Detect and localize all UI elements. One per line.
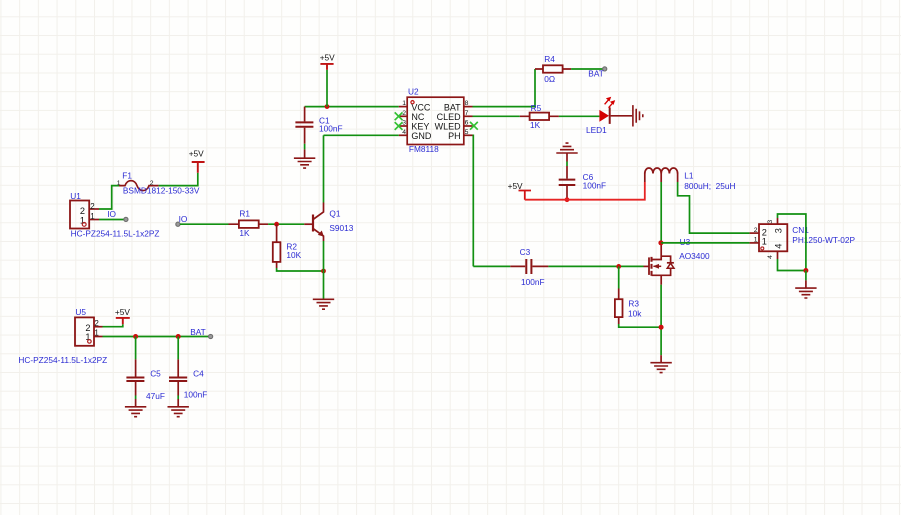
- wire R1 to Q1 base: [268, 223, 304, 225]
- svg-text:1: 1: [94, 328, 99, 337]
- wire IO to R1: [180, 223, 229, 225]
- svg-text:5: 5: [465, 129, 469, 136]
- svg-text:BAT: BAT: [444, 102, 461, 112]
- svg-text:L1: L1: [684, 171, 694, 181]
- svg-text:LED1: LED1: [586, 125, 607, 135]
- svg-text:100nF: 100nF: [521, 277, 545, 287]
- green pin end above C6: [566, 162, 568, 167]
- svg-text:3: 3: [767, 220, 774, 224]
- svg-text:GND: GND: [411, 131, 432, 141]
- svg-text:Q1: Q1: [329, 209, 340, 219]
- svg-text:1K: 1K: [530, 120, 541, 130]
- svg-text:R1: R1: [239, 209, 250, 219]
- stub ground to C6: [566, 153, 568, 162]
- resistor R1 1K: [229, 209, 269, 238]
- wire R5 to LED1: [559, 115, 600, 117]
- junction C5: [133, 334, 138, 339]
- wire F1 to +5V: [159, 173, 198, 186]
- svg-text:F1: F1: [122, 171, 132, 181]
- svg-text:0Ω: 0Ω: [544, 74, 555, 84]
- wire VCC row C1 to U2 pin1: [305, 106, 399, 108]
- wire L1 tap to U3 drain: [660, 182, 662, 243]
- ground (Q1 emitter): [313, 299, 334, 309]
- svg-text:U5: U5: [75, 307, 86, 317]
- svg-text:1K: 1K: [239, 228, 250, 238]
- svg-text:4: 4: [774, 244, 784, 249]
- svg-text:BSMD1812-150-33V: BSMD1812-150-33V: [123, 186, 200, 196]
- wire U2 PH down to C3 row: [472, 135, 475, 266]
- U5 pin 2 stub: [94, 326, 103, 328]
- green pin end C4: [177, 396, 179, 400]
- wire U2 CLED to R5: [473, 115, 520, 117]
- net port IO at U1 pin1: [99, 209, 128, 222]
- U1 pin 1 stub: [89, 219, 99, 221]
- net port BAT (R4): [588, 67, 607, 79]
- CN1 pin 2 stub: [750, 232, 759, 234]
- wire C3 to gate node: [548, 265, 643, 267]
- ground (U3 source): [650, 355, 671, 372]
- junction C4: [176, 334, 181, 339]
- junction R1/R2: [274, 222, 279, 227]
- svg-text:CLED: CLED: [437, 112, 462, 122]
- LED LED1: [586, 97, 632, 135]
- ground (C5): [125, 399, 146, 417]
- svg-text:2: 2: [94, 319, 99, 328]
- wire stub C1 to ground (green pin end): [304, 144, 306, 150]
- wire U5 pin1 BAT row: [103, 336, 210, 338]
- junction emitter node: [321, 269, 326, 274]
- svg-text:+5V: +5V: [189, 148, 204, 158]
- svg-text:U2: U2: [408, 87, 419, 97]
- wire U2 GND to Q1 collector: [324, 134, 399, 136]
- power net label +5V (rail): [508, 181, 531, 200]
- wire C3 row left segment: [473, 265, 510, 267]
- wire CN1 node to ground: [805, 271, 807, 281]
- connector U5 HC-PZ254-11.5L-1x2PZ: [18, 307, 107, 365]
- ground (C4): [168, 399, 189, 417]
- svg-text:3: 3: [402, 120, 406, 127]
- CN1 pin 3 stub (top): [777, 218, 779, 224]
- junction gate/R3: [616, 264, 621, 269]
- mosfet U3 AO3400: [644, 237, 711, 285]
- svg-text:S9013: S9013: [329, 223, 353, 233]
- junction CN1 ground node: [803, 268, 808, 273]
- svg-text:U3: U3: [680, 237, 691, 247]
- svg-text:HC-PZ254-11.5L-1x2PZ: HC-PZ254-11.5L-1x2PZ: [18, 355, 107, 365]
- U2 pin 2 NC stub: [399, 115, 407, 117]
- svg-text:1: 1: [90, 212, 95, 221]
- resistor R3 10k: [615, 266, 642, 324]
- svg-text:R3: R3: [628, 299, 639, 309]
- svg-text:+5V: +5V: [320, 52, 335, 62]
- no-connect X on U2 pin 2: [395, 112, 403, 120]
- wire BAT row down to C5: [135, 337, 137, 360]
- resistor R5 1K: [520, 103, 559, 130]
- svg-text:10K: 10K: [286, 250, 301, 260]
- wire +5V rail (red) to L1: [525, 182, 645, 200]
- CN1 pin 1 stub: [750, 242, 759, 244]
- svg-text:VCC: VCC: [411, 102, 431, 112]
- wire CN1 pin3 loop to pin4/ground: [778, 214, 806, 271]
- wire R3 bottom to source node: [619, 324, 661, 327]
- svg-text:2: 2: [90, 202, 95, 211]
- svg-text:6: 6: [465, 120, 469, 127]
- wire Q1 emitter to ground: [323, 241, 325, 299]
- svg-text:8: 8: [465, 100, 469, 107]
- svg-text:2: 2: [402, 110, 406, 117]
- junction +5V/VCC: [325, 104, 330, 109]
- ground (CN1): [795, 280, 816, 298]
- resistor R2 10K: [273, 224, 302, 268]
- svg-text:IO: IO: [179, 214, 188, 224]
- wire drain node to CN1 pin1: [661, 242, 749, 244]
- svg-text:U1: U1: [70, 191, 81, 201]
- no-connect X on U2 pin 3: [395, 122, 403, 130]
- svg-text:1: 1: [754, 236, 758, 243]
- svg-text:100nF: 100nF: [583, 181, 607, 191]
- svg-text:800uH; 25uH: 800uH; 25uH: [684, 181, 735, 191]
- svg-text:IO: IO: [107, 209, 116, 219]
- svg-text:R4: R4: [544, 54, 555, 64]
- IC U2 FM8118: [399, 87, 473, 154]
- U5 pin 1 stub: [94, 336, 103, 338]
- svg-text:1: 1: [762, 236, 767, 246]
- net port IO (to R1): [176, 214, 188, 226]
- svg-text:C3: C3: [520, 247, 531, 257]
- capacitor C1 100nF: [295, 107, 342, 144]
- transistor Q1 S9013: [304, 203, 353, 242]
- wire BAT row down to C4: [177, 337, 179, 360]
- capacitor C6 100nF: [559, 166, 606, 200]
- wire U5 pin2 to +5V: [103, 324, 123, 326]
- ground above C6 (rotated 180): [556, 143, 577, 153]
- svg-text:4: 4: [767, 255, 774, 259]
- inductor L1 800uH; 25uH: [645, 168, 736, 191]
- svg-text:FM8118: FM8118: [409, 144, 439, 154]
- capacitor C3 100nF: [510, 247, 548, 287]
- wire +5V down to VCC: [326, 70, 328, 107]
- connector CN1 PH1250-WT-02P: [750, 218, 856, 259]
- U2 pin 5 PH stub: [464, 134, 473, 136]
- fuse F1 BSMD1812-150-33V: [117, 171, 200, 196]
- net port BAT (U5): [190, 327, 213, 339]
- svg-text:7: 7: [465, 110, 469, 117]
- capacitor C5 47uF: [126, 359, 165, 401]
- U1 pin 2 stub: [89, 208, 99, 210]
- wire Q1 collector to U2 GND: [323, 135, 325, 202]
- wire L1 right to CN1 pin2: [678, 182, 750, 233]
- U2 pin 3 KEY stub: [399, 125, 407, 127]
- svg-text:3: 3: [774, 228, 784, 233]
- U2 pin 1 VCC stub: [399, 106, 407, 108]
- svg-text:1: 1: [402, 100, 406, 107]
- svg-text:+5V: +5V: [508, 181, 523, 191]
- svg-text:PH: PH: [448, 131, 461, 141]
- svg-text:AO3400: AO3400: [679, 251, 710, 261]
- green pin end C5: [135, 396, 137, 400]
- svg-text:NC: NC: [411, 112, 424, 122]
- ground (LED1 cathode, rotated): [633, 105, 643, 126]
- power flag +5V (U5): [115, 307, 130, 324]
- svg-text:2: 2: [754, 227, 758, 234]
- svg-text:C5: C5: [150, 368, 161, 378]
- svg-text:HC-PZ254-11.5L-1x2PZ: HC-PZ254-11.5L-1x2PZ: [71, 229, 160, 239]
- U2 pin 4 GND stub: [399, 134, 407, 136]
- svg-text:+5V: +5V: [115, 307, 130, 317]
- svg-text:BAT: BAT: [588, 69, 604, 79]
- svg-text:47uF: 47uF: [146, 391, 165, 401]
- svg-text:2: 2: [80, 206, 85, 216]
- svg-text:BAT: BAT: [190, 327, 206, 337]
- power flag +5V (F1): [189, 148, 205, 172]
- resistor R4 0ohm: [535, 54, 571, 84]
- svg-text:1: 1: [117, 180, 121, 187]
- wire U1 pin2 to F1: [99, 186, 119, 209]
- CN1 pin 4 stub (bottom): [777, 251, 779, 259]
- svg-text:C4: C4: [193, 368, 204, 378]
- junction source/R3: [659, 325, 664, 330]
- svg-text:4: 4: [402, 129, 406, 136]
- U2 pin 6 WLED stub: [464, 125, 473, 127]
- U2 pin 7 CLED stub: [464, 115, 473, 117]
- wire U3 source down to ground: [660, 285, 662, 356]
- power flag +5V (C1/U2): [320, 52, 335, 69]
- capacitor C4 100nF: [169, 359, 207, 399]
- svg-text:100nF: 100nF: [184, 390, 208, 400]
- svg-text:PH1250-WT-02P: PH1250-WT-02P: [792, 235, 855, 245]
- wire U2 BAT to R4: [473, 69, 536, 107]
- junction C6 on +5V rail: [565, 197, 570, 202]
- svg-text:10k: 10k: [628, 309, 642, 319]
- svg-text:100nF: 100nF: [319, 124, 343, 134]
- wire R2 bottom to emitter node: [277, 268, 324, 271]
- ground (C1): [294, 149, 315, 168]
- junction U3 drain node: [658, 240, 663, 245]
- wire R4 to BAT port: [571, 68, 603, 70]
- connector U1 HC-PZ254-11.5L-1x2PZ: [70, 191, 159, 239]
- U2 pin 8 BAT stub: [464, 106, 473, 108]
- no-connect X on U2 pin 6: [470, 122, 478, 130]
